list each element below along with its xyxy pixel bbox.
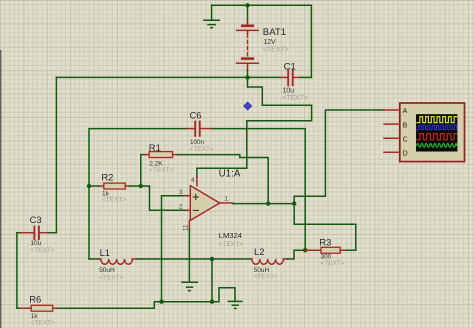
svg-text:<TEXT>: <TEXT>	[282, 95, 308, 102]
wire inverting input from junction	[141, 186, 187, 210]
waveform channel B blue	[417, 125, 457, 129]
wire non-inverting input down to bottom net	[162, 196, 184, 302]
svg-text:<TEXT>: <TEXT>	[31, 320, 55, 327]
wire top net: ground to BAT1 top to C1 right	[212, 5, 312, 77]
wire scope-A / R3 right net	[294, 110, 384, 250]
wire C6 right to vertical B	[212, 129, 305, 251]
ground top	[204, 5, 219, 27]
svg-text:L2: L2	[254, 246, 264, 257]
svg-text:10u: 10u	[282, 87, 294, 94]
svg-text:U1:A: U1:A	[219, 168, 241, 179]
wire op-amp output	[233, 203, 295, 205]
svg-text:LM324: LM324	[219, 231, 242, 240]
node R3 left	[303, 248, 307, 252]
wire R1 right jog to output	[178, 155, 269, 204]
wire C3 right vertical	[55, 77, 57, 232]
node bottom pin3 junction	[159, 300, 163, 304]
scope pin D	[384, 151, 400, 153]
battery BAT1	[237, 5, 259, 77]
resistor R3	[305, 247, 356, 253]
node battery bottom	[245, 75, 249, 79]
scope screen	[416, 114, 457, 151]
wire battery bottom horizontal net	[56, 76, 280, 78]
svg-text:<TEXT>: <TEXT>	[99, 274, 123, 281]
wire pin11 to ground	[188, 229, 190, 282]
scope pin C	[384, 137, 400, 139]
scope pin A	[384, 109, 400, 111]
svg-text:R3: R3	[319, 237, 331, 248]
svg-text:R6: R6	[29, 294, 41, 305]
svg-text:100n: 100n	[190, 139, 205, 146]
op-amp U1:A	[184, 177, 233, 229]
node R2 right R1 junction	[139, 184, 143, 188]
inductor L1	[89, 259, 251, 264]
svg-text:<TEXT>: <TEXT>	[219, 241, 243, 248]
svg-text:C: C	[403, 136, 408, 143]
wire left tall net corner (y77 to C3) is above; wire2 C6 left net	[89, 129, 187, 259]
node L1-L2 wire branch	[210, 257, 214, 261]
wire C3 left down to R6	[17, 233, 21, 309]
svg-text:R2: R2	[101, 171, 113, 182]
sheet border left edge	[0, 50, 2, 328]
svg-text:<TEXT>: <TEXT>	[190, 146, 214, 153]
scope pin B	[384, 123, 400, 125]
capacitor C3	[17, 227, 57, 240]
svg-text:3: 3	[179, 189, 183, 196]
ground bottom	[228, 301, 242, 308]
svg-text:L1: L1	[100, 247, 110, 258]
node bottom branch junction	[210, 300, 214, 304]
svg-text:<TEXT>: <TEXT>	[263, 47, 289, 54]
wire bottom net step	[154, 288, 235, 309]
oscilloscope body	[400, 103, 465, 162]
svg-text:C1: C1	[284, 61, 296, 72]
svg-text:<TEXT>: <TEXT>	[320, 260, 344, 267]
svg-text:11: 11	[183, 224, 190, 231]
svg-text:B: B	[403, 122, 408, 129]
inductor L2	[251, 250, 305, 264]
wire supply net staircase from battery to pin4	[197, 77, 312, 177]
svg-text:12V: 12V	[263, 39, 276, 46]
svg-text:2: 2	[179, 204, 183, 211]
svg-text:10u: 10u	[30, 240, 41, 247]
waveform channel C red	[417, 134, 457, 140]
svg-text:R1: R1	[149, 142, 161, 153]
resistor R2	[89, 183, 141, 189]
ground op-amp	[182, 282, 197, 290]
svg-text:D: D	[403, 150, 408, 157]
node battery top	[245, 3, 249, 7]
wire branch down from L1-L2 net	[211, 259, 213, 302]
svg-text:50uH: 50uH	[99, 267, 115, 274]
waveform channel D green	[417, 144, 457, 148]
node output scope tap	[292, 201, 296, 205]
node feedback-output	[266, 201, 270, 205]
capacitor C6	[187, 122, 213, 136]
svg-text:<TEXT>: <TEXT>	[102, 196, 126, 203]
wire R1 left vertical to R2 junction	[140, 155, 142, 186]
svg-text:C3: C3	[30, 214, 42, 225]
node R2 left on L1 vertical	[87, 184, 91, 188]
svg-text:A: A	[403, 108, 408, 115]
svg-text:1: 1	[224, 196, 228, 203]
waveform channel A yellow	[417, 117, 457, 123]
svg-text:<TEXT>: <TEXT>	[30, 247, 54, 254]
capacitor C1	[280, 70, 311, 85]
svg-text:BAT1: BAT1	[263, 27, 286, 38]
svg-text:<TEXT>: <TEXT>	[149, 167, 173, 174]
node origin diamond	[244, 102, 252, 110]
svg-text:C6: C6	[190, 110, 202, 120]
resistor R1	[141, 152, 178, 158]
svg-text:<TEXT>: <TEXT>	[254, 274, 278, 281]
svg-text:4: 4	[191, 177, 195, 184]
resistor R6	[20, 305, 154, 311]
